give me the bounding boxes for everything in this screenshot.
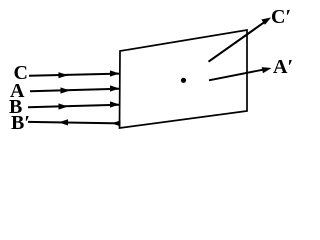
arrowhead C-prime (261, 18, 271, 25)
wire ray A (30, 89, 119, 92)
arrowhead A end (110, 85, 120, 91)
node label C (14, 63, 28, 83)
arrowhead C mid (59, 72, 69, 78)
arrowhead A-prime (262, 67, 272, 73)
node label C-prime (271, 7, 291, 27)
arrowhead B-prime mid (left) (59, 119, 69, 125)
wire ray C (29, 74, 119, 76)
wire ray C-prime (emerging) (209, 22, 266, 62)
dot (pinhole) (181, 78, 186, 83)
node label A (10, 81, 24, 101)
arrowhead B-prime right (left) (112, 120, 121, 126)
arrowhead A mid (61, 87, 71, 93)
arrowhead B mid (59, 103, 69, 109)
arrowhead B end (110, 101, 120, 107)
glass slab box (120, 30, 248, 128)
node label B (9, 97, 22, 117)
arrowhead C end (110, 70, 120, 76)
wire ray B-prime (reflected, arrows point left) (28, 122, 120, 124)
node label B-prime (11, 113, 30, 133)
node label A-prime (273, 57, 293, 77)
wire ray A-prime (emerging) (209, 69, 265, 80)
wire ray B (28, 105, 119, 108)
